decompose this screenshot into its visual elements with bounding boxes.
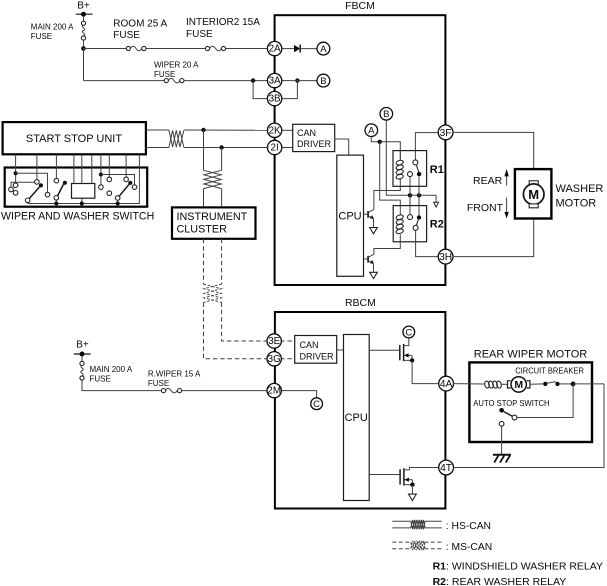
svg-text:FUSE: FUSE (186, 29, 213, 40)
chassis ground (auto stop switch) (493, 455, 511, 463)
node C (above MOSFET Q3) (403, 326, 415, 338)
CAN driver (RBCM) (280, 336, 343, 364)
transistor Q2 (364, 254, 374, 272)
svg-text:3H: 3H (439, 252, 452, 263)
CPU (RBCM) (344, 335, 370, 501)
svg-text:B: B (320, 76, 326, 87)
fusible link MAIN 200 A FUSE (top) (31, 21, 86, 41)
svg-text:FBCM: FBCM (345, 0, 375, 12)
transistor Q1 (364, 209, 374, 227)
wire ROOM fuse to INTERIOR2 fuse (146, 48, 205, 50)
node A (inside FBCM) (365, 124, 378, 137)
CAN driver (FBCM) (281, 124, 349, 155)
wire junction to ROOM fuse (84, 48, 127, 50)
connector 2M (267, 383, 281, 397)
svg-text:C: C (313, 399, 320, 410)
svg-text:MOTOR: MOTOR (556, 198, 597, 210)
twisted pair (vertical, to instrument cluster) (204, 170, 222, 188)
node: B+ junction (81, 46, 86, 51)
fuse R.WIPER 15 A (148, 370, 201, 393)
svg-text:M: M (528, 187, 539, 202)
label FRONT with down arrow (467, 198, 509, 219)
svg-text:DRIVER: DRIVER (297, 139, 332, 149)
svg-text:WASHER: WASHER (556, 183, 604, 195)
switch resistor block (72, 168, 95, 204)
wire MS-CAN to 3E (222, 303, 268, 342)
svg-text:CPU: CPU (345, 412, 368, 424)
connector 3H (438, 249, 453, 264)
svg-text:R.WIPER 15 A: R.WIPER 15 A (148, 370, 201, 379)
svg-text:FUSE: FUSE (31, 32, 52, 41)
svg-text:: HS-CAN: : HS-CAN (446, 521, 491, 532)
svg-text:B: B (383, 109, 389, 120)
ground (Q4) (409, 494, 417, 501)
svg-text:FUSE: FUSE (113, 30, 140, 41)
svg-text:INSTRUMENT: INSTRUMENT (177, 211, 248, 223)
switch pole 1 (wiper) (25, 168, 43, 204)
node: dot right of 3A (295, 78, 299, 82)
svg-text:2A: 2A (269, 44, 281, 55)
svg-text:B+: B+ (76, 340, 89, 351)
wire R.WIPER fuse to 2M (182, 390, 269, 392)
svg-text:B+: B+ (77, 1, 90, 12)
wiper and washer switch box (1, 168, 154, 223)
switch pin5 branch (99, 168, 137, 190)
legend MS-CAN symbol (392, 541, 492, 553)
svg-text:CAN: CAN (300, 340, 319, 350)
connector 3B (267, 91, 281, 105)
RBCM box (275, 312, 446, 509)
svg-text:3E: 3E (268, 336, 280, 347)
node B (outside FBCM) (317, 74, 330, 87)
node: dot left of 3A (251, 78, 255, 82)
svg-text:R2: REAR WASHER RELAY: R2: REAR WASHER RELAY (433, 576, 567, 586)
svg-text:FUSE: FUSE (90, 375, 111, 384)
B+ terminal (top) (76, 1, 93, 17)
fuse WIPER 20 A (154, 61, 199, 83)
rear motor armature coil (484, 381, 502, 389)
connector 2K (267, 123, 281, 137)
diode after 2A (294, 45, 317, 53)
wire breaker output loop down to 4T (453, 384, 604, 468)
svg-text:DRIVER: DRIVER (300, 351, 335, 361)
svg-text:M: M (514, 379, 523, 391)
switch common bus (28, 168, 140, 206)
rear wiper motor M (501, 377, 543, 392)
node: A feed junction (378, 140, 382, 144)
start stop unit box (3, 122, 146, 154)
connector 4A (439, 376, 454, 391)
ground arrow (contact bus) (434, 202, 439, 207)
svg-text:MAIN 200 A: MAIN 200 A (31, 23, 74, 32)
FBCM box (275, 15, 446, 285)
connector 3F (438, 125, 453, 140)
switch pin1 branch (9, 168, 50, 197)
fuse INTERIOR2 15A (186, 17, 260, 51)
node: HS-CAN tap low (219, 145, 223, 149)
wire MS-CAN to 3G (204, 303, 268, 359)
node: bus dot 1 (408, 193, 412, 197)
svg-text:3A: 3A (269, 76, 281, 87)
wire breaker junction down to auto stop switch (517, 384, 573, 418)
wire A junction down to R2 coil (380, 142, 401, 215)
wire SSU to 2I (HS-CAN low) (146, 147, 169, 149)
svg-text:R1: R1 (430, 164, 444, 176)
auto stop switch (499, 408, 517, 455)
svg-text:A: A (320, 44, 327, 55)
twisted pair HS-CAN (horizontal) (169, 130, 184, 148)
svg-text:3G: 3G (268, 354, 281, 365)
svg-text:3B: 3B (269, 94, 281, 105)
relay R2 (393, 206, 444, 242)
wire R1 coil bottom to Q1 collector (374, 179, 400, 210)
switch pole 2 (54, 168, 67, 204)
instrument cluster box (172, 207, 256, 238)
MOSFET Q4 (rear wiper output) (369, 468, 439, 495)
wire SSU to 2K (HS-CAN high) (146, 129, 169, 131)
wire R2 coil bottom to Q2 collector (374, 234, 400, 254)
connector 3E (267, 334, 281, 348)
svg-text:4T: 4T (440, 463, 452, 474)
switch washer contacts (107, 168, 112, 196)
rear wiper motor box (469, 362, 592, 442)
connector 3G (267, 352, 281, 366)
wire lower B+ to R.WIPER fuse (82, 380, 161, 391)
wire R1 lower contacts to bus to R2 upper contacts (409, 177, 411, 215)
svg-text:CLUSTER: CLUSTER (177, 223, 228, 235)
twisted pair MS-CAN (vertical, dashed) (204, 284, 222, 302)
wire B down to contact bus (386, 120, 436, 202)
svg-text:2I: 2I (271, 143, 279, 154)
wire MS-CAN dashed pair below instrument cluster (203, 239, 205, 284)
B+ terminal (lower) (74, 340, 91, 357)
wire B+ down to junction (83, 17, 85, 22)
wire INTERIOR2 fuse to 2A (226, 48, 269, 50)
wire 3A to node B (281, 80, 317, 82)
circuit breaker contacts (543, 382, 604, 387)
svg-text:3F: 3F (440, 128, 452, 139)
svg-text:RBCM: RBCM (345, 297, 376, 309)
svg-text:CAN: CAN (297, 128, 316, 138)
svg-text:ROOM 25 A: ROOM 25 A (113, 18, 167, 29)
wire junction down to WIPER fuse (83, 49, 85, 81)
wire 3F to washer motor (453, 132, 534, 180)
label REAR with up arrow (473, 169, 509, 187)
CPU (FBCM) (337, 155, 364, 276)
washer motor box (515, 169, 552, 218)
connector 3A (267, 73, 281, 87)
relay R1 (393, 151, 444, 187)
svg-text:CPU: CPU (338, 211, 361, 223)
ground (Q2) (370, 272, 378, 278)
MOSFET Q3 (rear washer output) (369, 338, 439, 384)
connector 2A (267, 41, 281, 55)
svg-text:REAR WIPER MOTOR: REAR WIPER MOTOR (474, 349, 588, 361)
legend HS-CAN symbol (392, 520, 491, 532)
svg-text:2M: 2M (267, 386, 281, 397)
wire 3F to R1 switch (415, 133, 439, 160)
svg-text:FUSE: FUSE (148, 379, 169, 388)
svg-text:CIRCUIT BREAKER: CIRCUIT BREAKER (515, 366, 584, 375)
wires SSU to switch pins (16, 154, 140, 167)
node B (inside FBCM) (380, 108, 393, 121)
svg-text:2K: 2K (269, 125, 281, 136)
node A (outside FBCM) (317, 42, 330, 55)
node: bus dot 2 (417, 193, 421, 197)
node: HS-CAN tap high (201, 128, 205, 132)
wire taps down to instrument cluster (203, 130, 205, 170)
fuse ROOM 25 A (113, 18, 167, 50)
wire R2 switch to 3H (416, 230, 440, 256)
svg-text:WIPER AND WASHER SWITCH: WIPER AND WASHER SWITCH (1, 211, 154, 223)
connector 4T (439, 460, 454, 475)
washer motor M (523, 181, 544, 208)
svg-text:REAR: REAR (473, 175, 503, 187)
svg-text:C: C (405, 327, 412, 338)
node C (near 2M) (281, 391, 323, 410)
switch pole 3 (washer) (115, 168, 132, 204)
svg-text:FUSE: FUSE (154, 70, 175, 79)
svg-text:AUTO STOP SWITCH: AUTO STOP SWITCH (473, 399, 549, 408)
svg-text:WIPER 20 A: WIPER 20 A (154, 61, 199, 70)
svg-text:R2: R2 (430, 219, 444, 231)
fusible link MAIN 200 A FUSE (lower) (80, 357, 133, 384)
wire 2A to diode (281, 48, 294, 50)
svg-text:A: A (368, 126, 375, 137)
wire washer motor to 3H (453, 208, 534, 257)
svg-text:: MS-CAN: : MS-CAN (446, 542, 492, 553)
wire WIPER fuse to 3A (184, 80, 269, 82)
svg-text:MAIN 200 A: MAIN 200 A (90, 365, 133, 374)
svg-text:FRONT: FRONT (467, 202, 504, 214)
svg-text:4A: 4A (440, 379, 453, 390)
svg-text:START STOP UNIT: START STOP UNIT (26, 133, 122, 145)
connector 2I (267, 140, 281, 154)
wire parallel loop 3A/3B right (281, 81, 298, 99)
wire A to relay coils feed (371, 137, 400, 159)
svg-text:INTERIOR2 15A: INTERIOR2 15A (186, 17, 260, 28)
wire 4A into motor (453, 383, 484, 385)
ground (Q1) (370, 228, 378, 234)
wire parallel loop 3A/3B left (253, 81, 268, 99)
svg-text:R1: WINDSHIELD WASHER RELAY: R1: WINDSHIELD WASHER RELAY (433, 561, 603, 573)
